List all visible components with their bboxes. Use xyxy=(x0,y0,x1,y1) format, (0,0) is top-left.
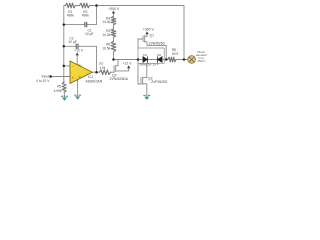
svg-text:D2: D2 xyxy=(157,53,161,57)
svg-text:AD8610AR: AD8610AR xyxy=(86,79,103,83)
svg-text:49.9: 49.9 xyxy=(172,52,179,56)
svg-text:−: − xyxy=(72,64,74,68)
svg-text:10 µF: 10 µF xyxy=(85,32,94,36)
svg-text:150 V: 150 V xyxy=(197,59,205,63)
svg-text:+12 V: +12 V xyxy=(122,61,132,65)
svg-text:D1: D1 xyxy=(143,53,147,57)
svg-text:ZVN4525DA: ZVN4525DA xyxy=(110,77,129,81)
svg-text:4.99k: 4.99k xyxy=(54,89,62,93)
svg-text:SMAZ16-13-F: SMAZ16-13-F xyxy=(139,62,159,66)
svg-text:IC1: IC1 xyxy=(88,75,93,79)
svg-text:+12 V: +12 V xyxy=(74,49,84,53)
svg-text:+: + xyxy=(72,76,74,80)
svg-text:10 µF: 10 µF xyxy=(68,40,77,44)
svg-text:+300 V: +300 V xyxy=(143,27,155,31)
svg-text:499k: 499k xyxy=(82,14,90,18)
svg-text:16.5k: 16.5k xyxy=(102,46,110,50)
svg-text:499k: 499k xyxy=(67,14,75,18)
svg-text:0 to 10 V: 0 to 10 V xyxy=(36,79,50,83)
svg-text:+300 V: +300 V xyxy=(108,7,120,11)
svg-text:ZVP4525G: ZVP4525G xyxy=(151,80,168,84)
svg-text:Q1: Q1 xyxy=(150,34,155,38)
svg-text:1.0k: 1.0k xyxy=(99,66,106,70)
svg-text:R5: R5 xyxy=(57,85,61,89)
svg-text:ZVN4525G: ZVN4525G xyxy=(149,42,166,46)
svg-text:14.3k: 14.3k xyxy=(102,33,110,37)
svg-text:14.3k: 14.3k xyxy=(102,20,110,24)
